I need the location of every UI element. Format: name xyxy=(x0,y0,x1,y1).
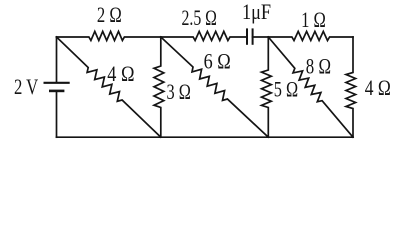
svg-text:2 V: 2 V xyxy=(14,76,38,100)
resistor R 3ohm vertical xyxy=(154,37,164,137)
capacitor 1uF right plate xyxy=(252,29,254,43)
svg-text:5 Ω: 5 Ω xyxy=(274,78,298,102)
wire left top segment xyxy=(56,37,58,83)
svg-text:8 Ω: 8 Ω xyxy=(306,56,331,80)
svg-text:4 Ω: 4 Ω xyxy=(107,62,134,86)
svg-text:4 Ω: 4 Ω xyxy=(365,76,391,100)
svg-text:2.5 Ω: 2.5 Ω xyxy=(181,7,216,31)
resistor R 6ohm diagonal xyxy=(161,37,268,137)
resistor R 2ohm top xyxy=(57,31,161,40)
resistor R 8ohm diagonal xyxy=(268,37,353,137)
svg-text:1 Ω: 1 Ω xyxy=(301,9,326,33)
resistor R 2.5ohm top xyxy=(161,31,247,40)
wire bottom rail xyxy=(57,136,354,138)
resistor R 4ohm diagonal xyxy=(57,37,161,137)
svg-text:6 Ω: 6 Ω xyxy=(204,50,231,74)
battery V1 long plate xyxy=(45,82,69,84)
resistor R 1ohm top xyxy=(268,31,353,40)
resistor R 4ohm right vertical xyxy=(346,37,356,137)
svg-text:2 Ω: 2 Ω xyxy=(97,4,122,28)
capacitor 1uF left plate xyxy=(246,29,248,43)
svg-text:1μF: 1μF xyxy=(242,1,271,25)
wire left bottom segment xyxy=(56,91,58,137)
resistor R 5ohm vertical xyxy=(262,37,272,137)
battery V1 short plate xyxy=(50,90,63,93)
svg-text:3 Ω: 3 Ω xyxy=(167,81,191,105)
wire capacitor to node C xyxy=(253,36,269,38)
